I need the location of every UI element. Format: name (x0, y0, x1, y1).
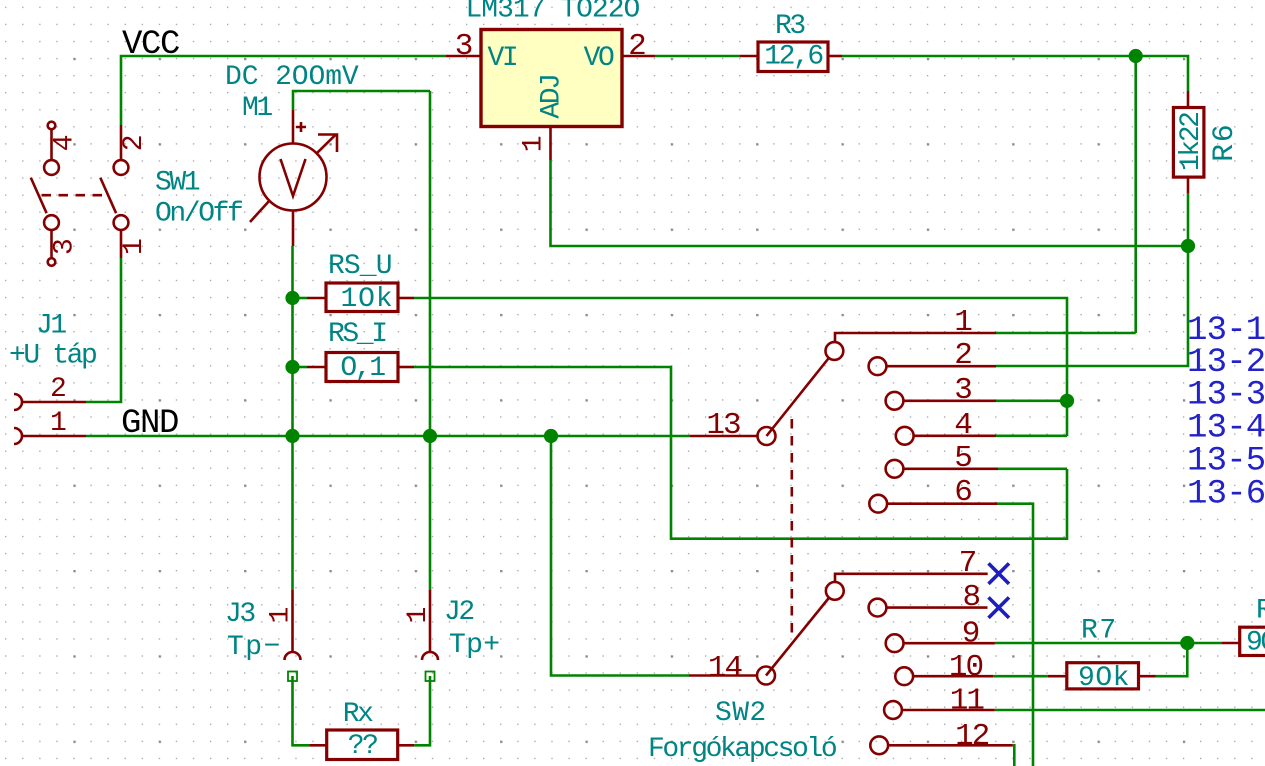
svg-text:RS_U: RS_U (328, 251, 392, 282)
test point connector J3 (266, 590, 301, 660)
wire contact 11 to right edge (995, 709, 1265, 712)
RS_U body (326, 283, 398, 312)
svg-text:1k22: 1k22 (1176, 113, 1207, 171)
resistor R6 (1173, 91, 1207, 193)
R7 right pin (1139, 675, 1156, 678)
SW2 position 11 contact (884, 701, 902, 719)
connector J1 (14, 374, 86, 444)
svg-text:12: 12 (955, 719, 989, 754)
svg-text:1: 1 (50, 408, 66, 439)
junction contact 3 net (1060, 394, 1074, 408)
wire R7 right up to junction (1156, 643, 1188, 676)
dangling wire end square at J3 (288, 672, 297, 682)
SW1 lever B (100, 178, 116, 214)
svg-text:R: R (1256, 596, 1265, 627)
SW2 position 4 contact (896, 427, 914, 445)
wire RS_U left stub (293, 297, 308, 300)
svg-text:VCC: VCC (122, 26, 179, 64)
wire VO net: LM317 VO to R3 left (655, 55, 740, 58)
SW1 contact A bottom (44, 215, 59, 230)
wire contact 3 stub (996, 399, 1067, 402)
wire contact 6 down to bottom edge (998, 504, 1033, 766)
resistor R7 (1048, 663, 1156, 694)
SW1 contact A top (44, 160, 59, 175)
wire R3 right to junction and R6 top corner (842, 56, 1188, 91)
SW2 position 6 contact (869, 495, 887, 513)
SW2 contact 9 line (904, 642, 995, 645)
SW2 position 3 contact (886, 392, 904, 410)
wire contact 5 stub (998, 467, 1067, 470)
wire GND drop to SW2 common 14 (551, 436, 689, 676)
switch SW1 (31, 122, 150, 266)
R6 top pin (1187, 91, 1190, 108)
wire VO net drop to SW2 contact 1 (1134, 56, 1137, 333)
R8 left pin (1221, 642, 1239, 645)
R8 body (1240, 627, 1265, 655)
J1 pin 1 arc (14, 428, 22, 444)
svg-text:R3: R3 (775, 11, 805, 42)
resistor R8 (cut off at edge) (1221, 627, 1265, 659)
svg-text:2: 2 (954, 338, 971, 373)
R3 right pin (828, 55, 842, 58)
SW2 contact 4 line (914, 434, 996, 437)
regulator U1 LM317 (446, 29, 655, 160)
SW2 common contact 14 (757, 667, 775, 685)
wire VCC net: SW1 pin2 up and right to LM317 VI (121, 56, 446, 125)
SW2 common contact 13 (758, 427, 776, 445)
no-connect X on contact 7 (989, 563, 1010, 584)
R6 body (1173, 108, 1204, 178)
wire SW1 pin1 down to J1 pin2 (86, 258, 121, 402)
svg-text:DC 2OOmV: DC 2OOmV (225, 62, 359, 93)
svg-text:2: 2 (119, 135, 150, 151)
svg-text:LM317 TO22O: LM317 TO22O (466, 0, 640, 26)
SW1 contact B bottom (114, 215, 129, 230)
M1 top pin (292, 110, 295, 144)
LM317 pin 1 ADJ stub (549, 127, 552, 161)
junction VO net at R3 output (1129, 49, 1143, 63)
RS_I left pin (307, 366, 326, 369)
svg-text:SW1: SW1 (155, 168, 200, 199)
SW1 gang dashed link (42, 194, 106, 197)
wire Rx right up to J2 dangling end (414, 676, 430, 745)
M1 arrow lower segment (250, 201, 269, 222)
RS_U left pin (307, 297, 326, 300)
svg-text:1: 1 (954, 305, 972, 340)
wire M1 plus terminal top corner to x=430 (293, 91, 430, 110)
J1 pin 2 arc (14, 394, 22, 410)
wire R6 bottom to junction then down-left to contact 2 (996, 193, 1188, 366)
junction ADJ at R6 bottom (1181, 239, 1195, 253)
SW1 pin 4 open end (48, 122, 56, 130)
SW2 pin 14 line (689, 674, 757, 677)
svg-text:??: ?? (348, 731, 377, 762)
SW2 position 2 contact (869, 357, 887, 375)
svg-text:9: 9 (962, 617, 979, 652)
svg-text:VO: VO (584, 43, 614, 74)
Rx right pin (398, 744, 415, 747)
resistor R3 (740, 42, 842, 73)
LM317 pin 2 VO stub (622, 55, 655, 58)
svg-text:4: 4 (954, 408, 972, 443)
svg-text:Tp−: Tp− (227, 632, 282, 663)
R7 body (1067, 663, 1139, 689)
svg-text:Tp+: Tp+ (449, 630, 500, 661)
R7 left pin (1048, 675, 1067, 678)
svg-text:M1: M1 (242, 93, 272, 124)
svg-text:J2: J2 (444, 597, 473, 628)
junction GND at M1 vertical (285, 429, 299, 443)
resistor Rx (309, 730, 414, 762)
SW2 position 8 contact (869, 599, 887, 617)
svg-text:2: 2 (628, 29, 646, 64)
junction GND at x=551 (544, 429, 558, 443)
SW2 lower lever (766, 598, 829, 676)
svg-text:Rx: Rx (343, 699, 373, 730)
svg-text:2: 2 (50, 374, 66, 405)
svg-text:3: 3 (50, 239, 81, 255)
R6 bottom pin (1187, 177, 1190, 193)
SW1 pin 1 stub (120, 230, 123, 258)
svg-text:1Ok: 1Ok (340, 284, 393, 315)
svg-text:RS_I: RS_I (328, 319, 386, 350)
J3 pin 1 line (291, 590, 294, 652)
SW2 contact 12 line (888, 744, 1013, 747)
junction RS_I at M1 vertical (285, 360, 299, 374)
svg-text:ADJ: ADJ (537, 75, 568, 118)
SW2 contact 8 line (886, 606, 987, 609)
wire RS_I right long path to SW2 contact 5 (414, 367, 1067, 539)
svg-text:12,6: 12,6 (764, 42, 822, 73)
svg-text:3: 3 (954, 373, 971, 408)
LM317 pin 3 VI stub (446, 55, 481, 58)
no-connect X on contact 8 (989, 597, 1010, 618)
rotary switch SW2 (689, 305, 1013, 754)
SW2 gang dashed link (790, 419, 793, 633)
svg-text:1: 1 (266, 607, 297, 623)
svg-text:6: 6 (954, 475, 971, 510)
RS_U right pin (398, 297, 414, 300)
junction GND at x=430 (423, 429, 437, 443)
resistor RS_I (307, 353, 414, 385)
svg-text:14: 14 (708, 651, 743, 686)
svg-text:11: 11 (950, 684, 985, 719)
SW2 contact 2 line (886, 365, 996, 368)
SW2 position 5 contact (886, 460, 904, 478)
SW1 pin 3 stub (50, 230, 53, 258)
SW2 position 7 contact (826, 582, 844, 600)
M1 arrow head (318, 135, 337, 153)
svg-text:SW2: SW2 (715, 698, 767, 729)
SW2 contact 3 line (903, 399, 996, 402)
SW2 contact 1 riser (835, 333, 996, 342)
svg-text:4: 4 (50, 135, 81, 151)
SW1 contact B top (114, 160, 129, 175)
J1 pin 2 line (22, 401, 87, 404)
svg-text:1: 1 (403, 607, 434, 623)
svg-text:5: 5 (954, 441, 971, 476)
SW2 position 12 contact (870, 736, 888, 754)
M1 arrow upper segment (317, 135, 336, 154)
SW2 contact 6 line (887, 502, 998, 505)
svg-text:+U táp: +U táp (9, 341, 96, 372)
SW2 position 10 contact (895, 667, 913, 685)
SW2 contact 5 line (903, 467, 998, 470)
RS_I body (326, 353, 398, 382)
SW2 position 9 contact (886, 634, 904, 652)
J1 pin 1 line (22, 435, 87, 438)
svg-text:GND: GND (121, 405, 178, 443)
Rx body (327, 730, 398, 760)
svg-text:1: 1 (519, 136, 550, 152)
svg-text:13-6: 13-6 (1187, 476, 1265, 514)
wire contact 4 stub (996, 434, 1067, 437)
wire ADJ net from LM317 ADJ down and right to R6 bottom junction (551, 160, 1189, 246)
svg-text:J3: J3 (225, 599, 255, 630)
voltmeter M1 (250, 110, 337, 246)
SW2 contact 11 line (902, 709, 995, 712)
RS_I right pin (398, 366, 414, 369)
svg-text:3: 3 (455, 29, 473, 64)
J2 pin 1 arc (422, 652, 438, 660)
svg-text:7: 7 (959, 546, 976, 581)
SW1 pin 4 stub (50, 130, 53, 161)
svg-text:13: 13 (706, 408, 740, 443)
wire M1 minus vertical down to J3 (291, 246, 294, 590)
M1 plus mark (296, 122, 306, 132)
SW1 pin 2 stub (120, 125, 123, 160)
svg-text:O,1: O,1 (340, 353, 385, 384)
svg-text:J1: J1 (36, 311, 66, 342)
R3 body (758, 42, 828, 72)
wire GND horizontal (86, 435, 690, 438)
R3 left pin (740, 55, 758, 58)
svg-text:1: 1 (119, 239, 150, 255)
SW1 lever A (31, 178, 47, 214)
svg-text:9Ok: 9Ok (1078, 663, 1130, 694)
wire contact 10 to R7 left (993, 675, 1048, 678)
SW2 pin 13 line (690, 435, 758, 438)
SW1 pin 3 open end (48, 258, 56, 266)
SW2 upper lever (767, 358, 829, 436)
wire contact 1 to VO drop (996, 332, 1136, 335)
svg-text:VI: VI (488, 43, 517, 74)
svg-text:R7: R7 (1081, 616, 1118, 647)
wire contact 12 down to bottom edge (1013, 745, 1015, 766)
wire RS_U right to SW2 contacts 3-4 (414, 298, 1067, 436)
J2 pin 1 line (429, 590, 432, 652)
SW2 contact 10 line (913, 675, 993, 678)
svg-text:9O: 9O (1246, 628, 1265, 659)
resistor RS_U (307, 283, 414, 315)
SW2 contact 7 riser (835, 574, 988, 583)
junction RS_U at M1 vertical (285, 291, 299, 305)
svg-text:8: 8 (962, 580, 979, 615)
J3 pin 1 arc (285, 652, 301, 660)
svg-text:On/Off: On/Off (155, 199, 243, 230)
wire J3 dangling end down to Rx left (293, 676, 310, 745)
wire RS_I left stub (293, 366, 308, 369)
svg-text:R6: R6 (1208, 123, 1242, 162)
svg-text:Forgókapcsoló: Forgókapcsoló (648, 734, 836, 765)
Rx left pin (309, 744, 326, 747)
M1 bottom pin (292, 211, 295, 246)
M1 V glyph (281, 159, 306, 196)
LM317 body (481, 30, 622, 127)
junction contact 9 net at R8 (1180, 636, 1194, 650)
SW2 position 1 contact (826, 342, 844, 360)
test point connector J2 (403, 590, 438, 660)
M1 body circle (260, 144, 327, 211)
svg-text:10: 10 (949, 650, 983, 685)
wire vertical x=430 from y=91 down to J2 (429, 91, 432, 590)
dangling wire end square at J2 (426, 672, 435, 682)
wire contact 9 to R7 junction and R8 (995, 642, 1222, 645)
